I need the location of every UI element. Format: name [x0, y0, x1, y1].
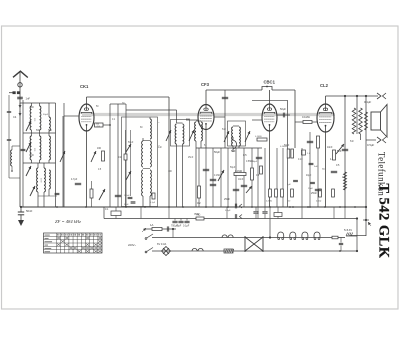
svg-text:50μF: 50μF — [128, 142, 134, 144]
svg-text:5nF: 5nF — [350, 141, 355, 143]
svg-text:0.2MΩ: 0.2MΩ — [266, 201, 272, 203]
svg-text:1nF: 1nF — [158, 147, 163, 149]
svg-text:5μF: 5μF — [177, 225, 182, 228]
svg-text:50μF: 50μF — [214, 150, 220, 154]
svg-text:0.18: 0.18 — [298, 159, 303, 161]
svg-text:50nF: 50nF — [26, 209, 33, 213]
svg-text:0.5μF: 0.5μF — [367, 143, 374, 147]
svg-text:0.1MΩ: 0.1MΩ — [214, 175, 221, 177]
svg-text:4.5kΩ: 4.5kΩ — [316, 201, 322, 203]
svg-text:0.1MΩ: 0.1MΩ — [255, 136, 262, 138]
svg-text:100nF: 100nF — [124, 195, 130, 197]
svg-text:2nF: 2nF — [118, 157, 123, 159]
svg-text:CL2: CL2 — [320, 83, 329, 88]
svg-text:5×6.3V: 5×6.3V — [344, 229, 352, 232]
svg-text:50μF: 50μF — [43, 114, 49, 116]
svg-text:0.1μF: 0.1μF — [225, 210, 231, 212]
svg-text:220V~: 220V~ — [128, 243, 137, 247]
svg-text:1μF: 1μF — [287, 184, 291, 186]
svg-text:CF3: CF3 — [201, 82, 210, 87]
svg-text:5nF: 5nF — [231, 149, 236, 153]
svg-text:6V 0.3A: 6V 0.3A — [157, 242, 166, 246]
svg-text:C4: C4 — [13, 115, 17, 119]
svg-text:1A: 1A — [150, 223, 154, 227]
svg-text:0.2: 0.2 — [197, 201, 201, 205]
svg-text:ZF = 484 kHz: ZF = 484 kHz — [55, 219, 81, 224]
svg-text:5nF: 5nF — [222, 129, 227, 131]
svg-text:0.1μF: 0.1μF — [364, 100, 371, 104]
svg-text:160: 160 — [97, 147, 102, 150]
svg-text:0.1MΩ: 0.1MΩ — [302, 115, 310, 119]
svg-text:0.1MΩ: 0.1MΩ — [235, 170, 242, 173]
svg-text:0.5MΩ: 0.5MΩ — [246, 161, 253, 163]
svg-text:0.1μF: 0.1μF — [183, 225, 190, 228]
svg-text:50μF: 50μF — [284, 145, 290, 147]
svg-text:50nF: 50nF — [124, 204, 129, 206]
svg-text:1nF: 1nF — [26, 97, 31, 101]
svg-text:7kΩ: 7kΩ — [196, 214, 201, 217]
svg-text:CK1: CK1 — [80, 84, 89, 89]
svg-text:T 542 GLK: T 542 GLK — [376, 183, 392, 258]
svg-text:50μF: 50μF — [280, 107, 286, 111]
svg-text:10nF: 10nF — [327, 146, 333, 149]
svg-text:25nF: 25nF — [188, 157, 194, 159]
svg-text:0.5: 0.5 — [243, 153, 247, 157]
svg-text:50μF: 50μF — [230, 167, 236, 169]
svg-text:4.7μF: 4.7μF — [71, 178, 78, 181]
svg-text:25nF: 25nF — [311, 191, 317, 195]
svg-text:0.1μF: 0.1μF — [150, 202, 156, 204]
svg-text:25nF: 25nF — [224, 197, 230, 201]
svg-text:10nF: 10nF — [238, 179, 244, 181]
svg-text:40μF: 40μF — [306, 175, 312, 177]
svg-text:CBC1: CBC1 — [264, 80, 276, 85]
svg-text:25nF: 25nF — [308, 188, 314, 190]
